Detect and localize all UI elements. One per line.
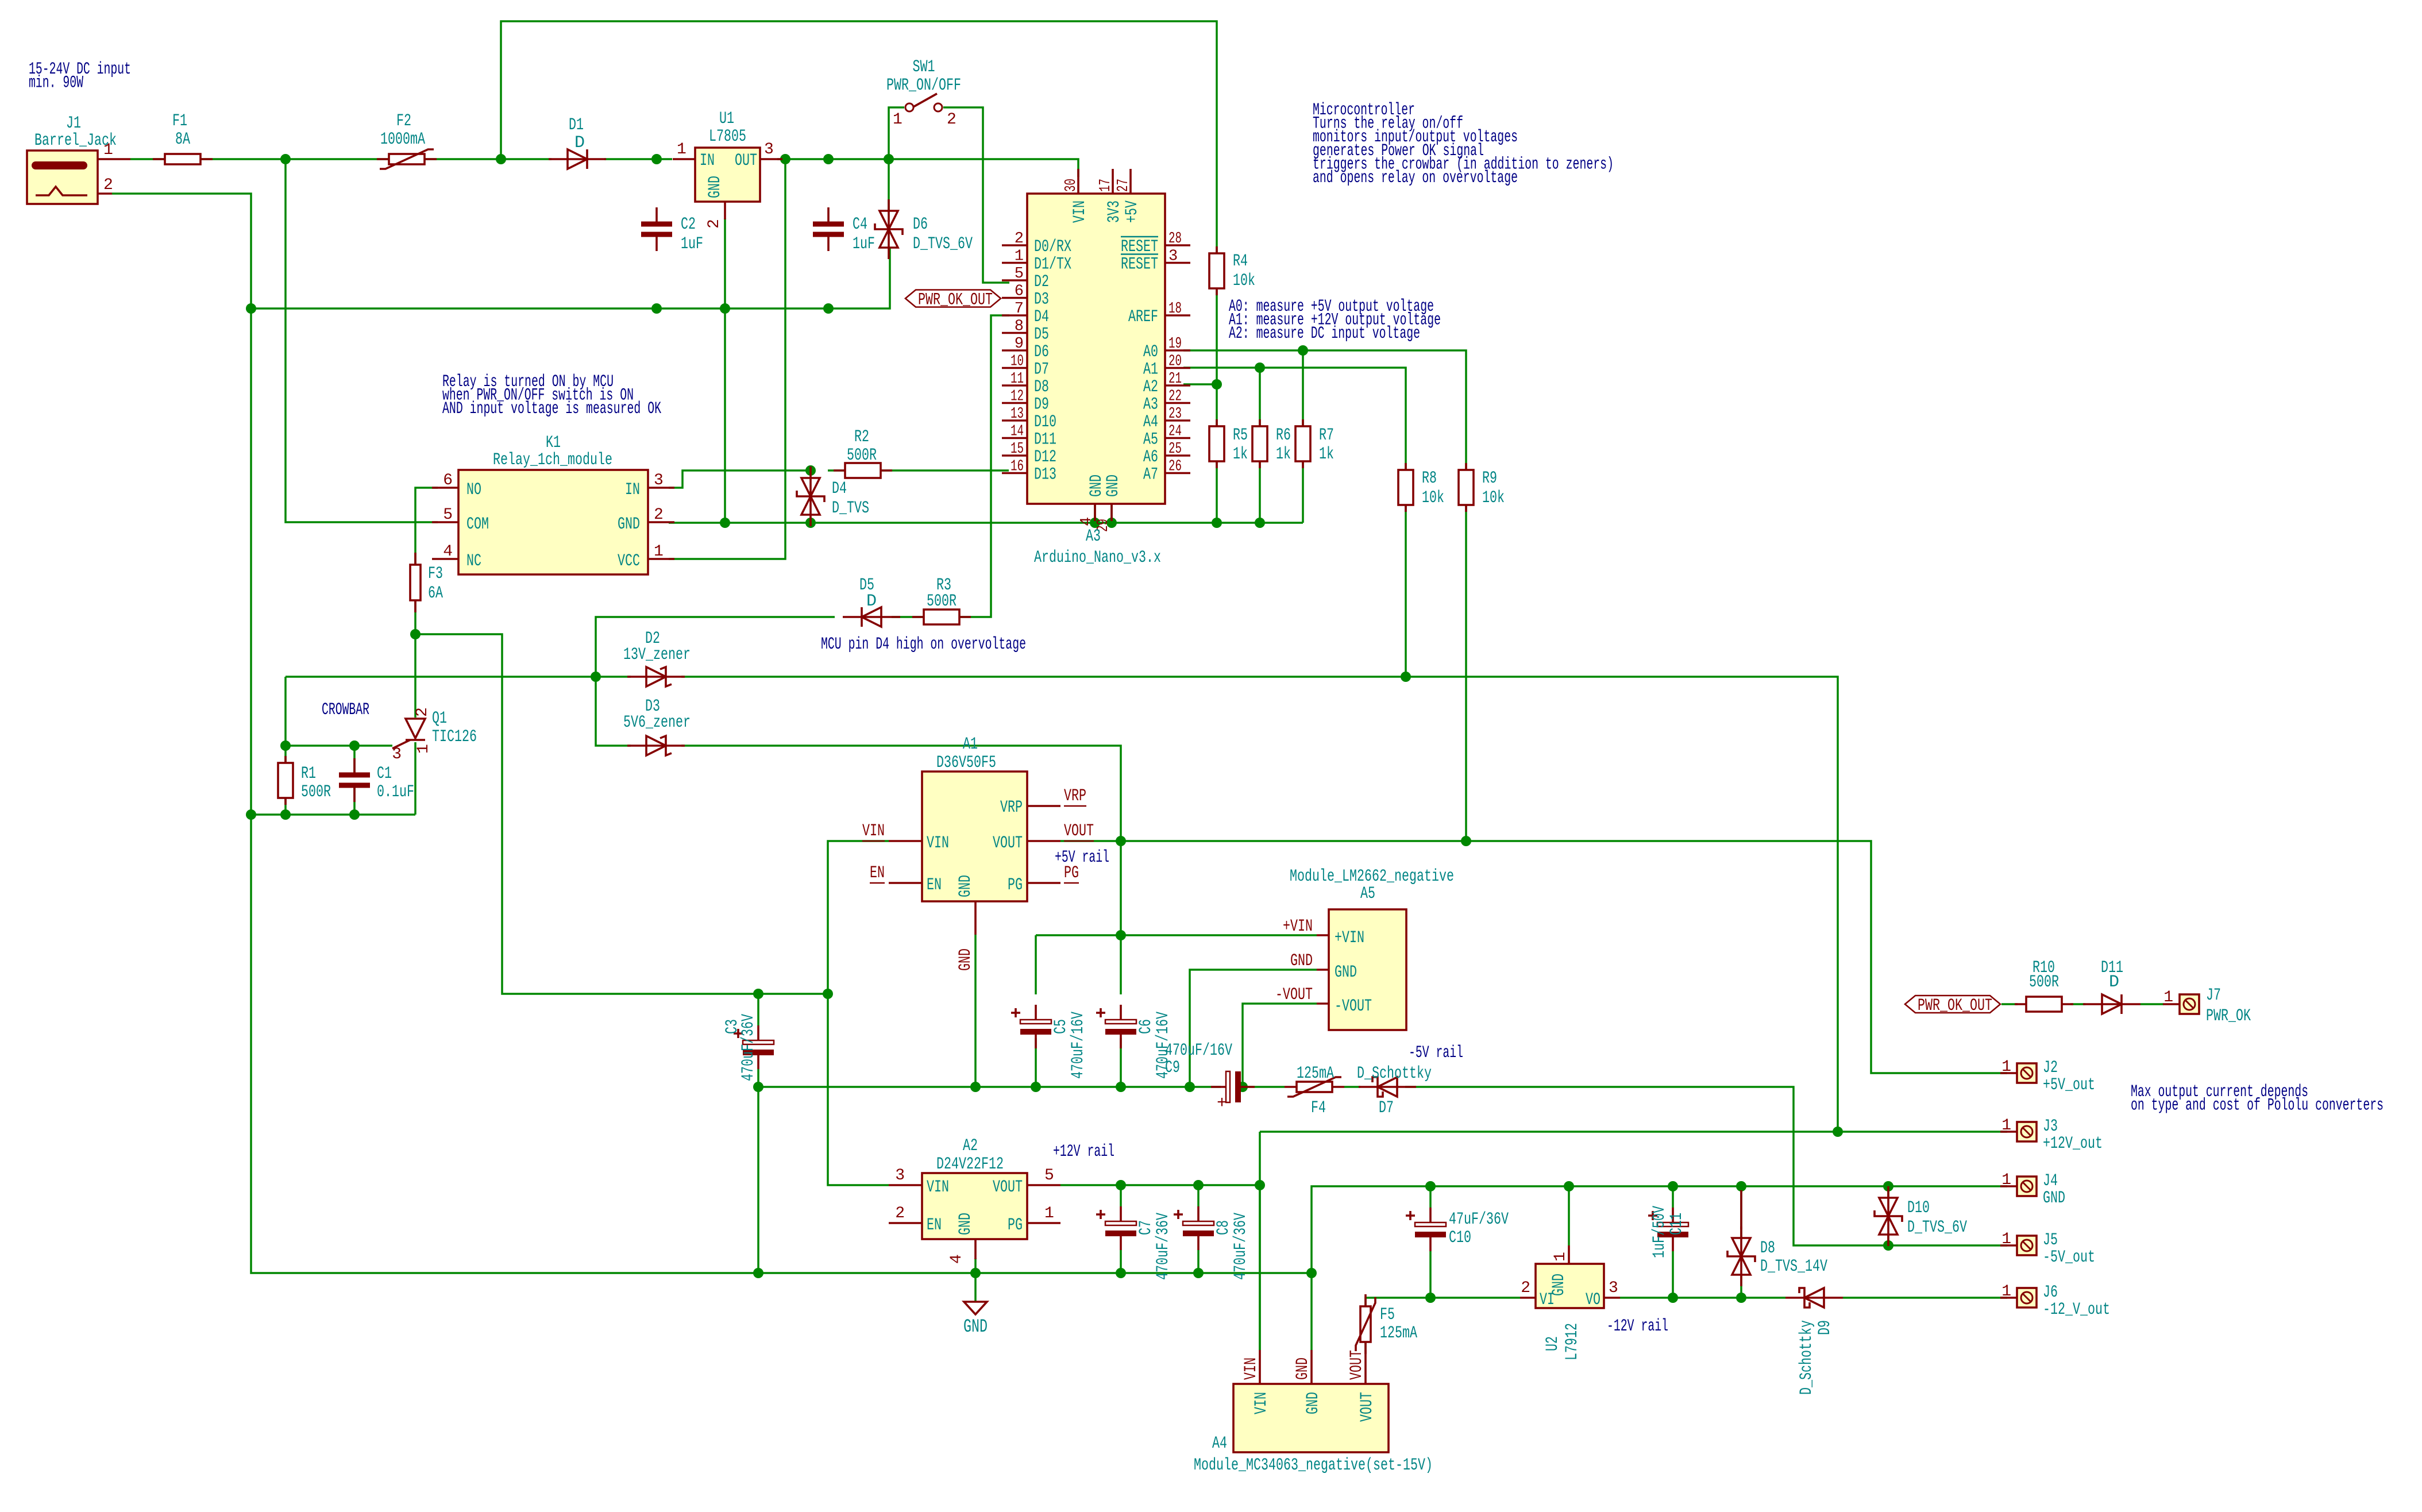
svg-text:10k: 10k bbox=[1233, 271, 1255, 291]
svg-text:J1: J1 bbox=[66, 114, 81, 133]
svg-text:VOUT: VOUT bbox=[993, 1178, 1023, 1197]
svg-text:Relay_1ch_module: Relay_1ch_module bbox=[493, 450, 612, 470]
wire C3 link down bbox=[757, 1087, 759, 1273]
zener diode D3 5V6 bbox=[627, 745, 685, 747]
svg-text:22: 22 bbox=[1168, 388, 1182, 406]
svg-text:18: 18 bbox=[1168, 300, 1182, 318]
connector J5 -5V_out bbox=[2017, 1236, 2037, 1255]
svg-text:1: 1 bbox=[2001, 1231, 2011, 1248]
svg-text:+VIN: +VIN bbox=[1283, 917, 1313, 936]
svg-text:C5: C5 bbox=[1051, 1019, 1071, 1034]
svg-text:D7: D7 bbox=[1379, 1098, 1394, 1118]
diode D11 bbox=[2083, 1003, 2141, 1005]
svg-text:D12: D12 bbox=[1034, 448, 1056, 467]
connector J2 +5V_out bbox=[2017, 1063, 2037, 1083]
svg-text:TIC126: TIC126 bbox=[432, 727, 477, 747]
svg-text:D3: D3 bbox=[1034, 290, 1049, 310]
svg-text:11: 11 bbox=[1011, 371, 1024, 388]
svg-text:A4: A4 bbox=[1143, 412, 1158, 432]
svg-text:7: 7 bbox=[1015, 300, 1024, 318]
junction V+ node below F3 bbox=[410, 629, 421, 639]
svg-text:-5V_out: -5V_out bbox=[2043, 1248, 2095, 1267]
svg-text:3V3: 3V3 bbox=[1105, 200, 1124, 223]
svg-text:D_TVS: D_TVS bbox=[832, 499, 869, 518]
svg-text:D: D bbox=[866, 592, 877, 611]
wire C10 bbox=[1429, 1186, 1432, 1208]
svg-text:500R: 500R bbox=[847, 446, 877, 465]
svg-text:D7: D7 bbox=[1034, 360, 1049, 380]
svg-text:1k: 1k bbox=[1233, 445, 1248, 464]
svg-text:J7: J7 bbox=[2206, 986, 2221, 1005]
capacitor C4 1uF bbox=[827, 207, 830, 223]
svg-text:F3: F3 bbox=[428, 564, 443, 584]
svg-text:2: 2 bbox=[654, 506, 664, 524]
svg-text:27: 27 bbox=[1115, 179, 1132, 192]
regulator U2 L7912 bbox=[1536, 1264, 1604, 1308]
svg-text:R2: R2 bbox=[854, 427, 869, 447]
svg-text:VIN: VIN bbox=[1070, 200, 1090, 223]
junction vin5/C6 bbox=[1116, 930, 1126, 940]
svg-text:-12V rail: -12V rail bbox=[1607, 1317, 1668, 1336]
svg-text:A5: A5 bbox=[1360, 884, 1375, 904]
svg-text:6: 6 bbox=[443, 472, 453, 489]
capacitor C2 1uF bbox=[655, 207, 658, 223]
svg-text:10k: 10k bbox=[1482, 488, 1505, 508]
junction J4/D10 bbox=[1883, 1181, 1893, 1191]
junction crowbar/C1 bbox=[349, 809, 360, 820]
svg-text:25: 25 bbox=[1168, 441, 1182, 458]
wire U2 gnd bbox=[1568, 1186, 1570, 1245]
diode D5 bbox=[843, 616, 900, 618]
svg-text:3: 3 bbox=[895, 1167, 905, 1185]
junction g1892/C3 bbox=[753, 1082, 763, 1092]
svg-text:2: 2 bbox=[103, 176, 113, 194]
regulator module A1 D36V50F5 bbox=[922, 772, 1027, 901]
svg-text:4: 4 bbox=[443, 543, 453, 561]
svg-text:GND: GND bbox=[1549, 1274, 1569, 1296]
svg-text:23: 23 bbox=[1168, 406, 1182, 423]
svg-text:D5: D5 bbox=[1034, 325, 1049, 345]
wire R7 bottom bbox=[1302, 461, 1304, 523]
connector J6 -12_V_out bbox=[2017, 1288, 2037, 1307]
wire R8 bottom bbox=[1405, 504, 1407, 677]
junction J6/C11 bbox=[1668, 1293, 1678, 1303]
wire C11 bbox=[1672, 1186, 1674, 1208]
junction main/SW1-D6 bbox=[884, 154, 894, 164]
svg-text:J6: J6 bbox=[2043, 1283, 2058, 1302]
junction 12V/C7 bbox=[1116, 1180, 1126, 1190]
converter module A4 Module_MC34063_negative bbox=[1233, 1384, 1389, 1452]
junction main/C2 bbox=[651, 154, 662, 164]
svg-text:C9: C9 bbox=[1165, 1058, 1180, 1078]
svg-text:1uF: 1uF bbox=[853, 234, 875, 254]
wire gate row bbox=[286, 745, 392, 747]
svg-text:R6: R6 bbox=[1276, 426, 1291, 445]
junction g1892/A1gnd bbox=[970, 1082, 981, 1092]
svg-text:Module_MC34063_negative(set-15: Module_MC34063_negative(set-15V) bbox=[1194, 1456, 1433, 1475]
wire R5 bottom bbox=[1216, 461, 1218, 523]
wire trunk up to A1 VIN bbox=[828, 841, 889, 994]
junction A2/R4R5 bbox=[1212, 379, 1222, 389]
svg-text:GND: GND bbox=[956, 948, 975, 971]
junction rail910/D4 bbox=[805, 518, 816, 528]
svg-text:EN: EN bbox=[927, 1216, 942, 1235]
wire D8 leads bbox=[1740, 1186, 1742, 1238]
svg-text:RESET: RESET bbox=[1121, 255, 1158, 275]
svg-text:GND: GND bbox=[1293, 1357, 1313, 1380]
wire C6 top bbox=[1120, 935, 1122, 994]
wire top loop to R4 bbox=[501, 21, 1217, 253]
schottky diode D7 bbox=[1359, 1086, 1416, 1088]
wire +5V down to +VIN line bbox=[1120, 841, 1122, 935]
svg-text:D_TVS_14V: D_TVS_14V bbox=[1760, 1257, 1827, 1276]
svg-text:1: 1 bbox=[2001, 1171, 2011, 1189]
svg-text:1: 1 bbox=[2163, 989, 2173, 1006]
microcontroller A3 Arduino_Nano_v3.x bbox=[1027, 194, 1165, 504]
svg-text:GND: GND bbox=[1290, 951, 1313, 971]
svg-text:D_TVS_6V: D_TVS_6V bbox=[913, 234, 973, 254]
svg-text:A1: A1 bbox=[963, 735, 978, 754]
junction rail910/U1gnd bbox=[720, 518, 730, 528]
capacitor C9 470uF/16V bbox=[1211, 1086, 1226, 1088]
junction J3/sense bbox=[1833, 1127, 1843, 1137]
junction g1892/C5 bbox=[1031, 1082, 1041, 1092]
capacitor C10 47uF/36V bbox=[1429, 1208, 1432, 1222]
svg-text:13V_zener: 13V_zener bbox=[623, 645, 691, 665]
schottky diode D9 bbox=[1785, 1297, 1843, 1299]
svg-text:24: 24 bbox=[1168, 423, 1182, 441]
svg-text:J4: J4 bbox=[2043, 1171, 2058, 1191]
svg-text:VO: VO bbox=[1586, 1290, 1600, 1310]
svg-text:VIN: VIN bbox=[1241, 1357, 1261, 1380]
svg-text:D36V50F5: D36V50F5 bbox=[936, 753, 996, 773]
svg-text:28: 28 bbox=[1168, 230, 1182, 248]
svg-text:13: 13 bbox=[1011, 406, 1024, 423]
ground symbol under A2 bbox=[964, 1302, 987, 1314]
wire MCU gnd stubs bbox=[1094, 504, 1096, 523]
svg-text:A6: A6 bbox=[1143, 448, 1158, 467]
svg-text:A2: measure DC input voltage: A2: measure DC input voltage bbox=[1229, 324, 1420, 344]
svg-text:GND: GND bbox=[956, 875, 975, 897]
svg-text:470uF/36V: 470uF/36V bbox=[739, 1014, 758, 1081]
wire V+ node to A1-VIN trunk bbox=[415, 634, 828, 994]
svg-text:VIN: VIN bbox=[862, 821, 885, 841]
regulator U1 L7805 bbox=[695, 148, 760, 202]
svg-text:R5: R5 bbox=[1233, 426, 1248, 445]
svg-text:C8: C8 bbox=[1214, 1220, 1233, 1235]
TVS diode D4 D_TVS bbox=[809, 466, 812, 526]
svg-text:D8: D8 bbox=[1034, 377, 1049, 397]
svg-text:VOUT: VOUT bbox=[993, 834, 1023, 853]
svg-text:AND input voltage is measured: AND input voltage is measured OK bbox=[442, 399, 661, 419]
svg-text:A4: A4 bbox=[1212, 1434, 1227, 1453]
svg-text:VOUT: VOUT bbox=[1347, 1350, 1367, 1380]
wire D10 leads bbox=[1887, 1186, 1889, 1198]
capacitor C5 470uF/16V bbox=[1035, 1005, 1037, 1020]
svg-text:D24V22F12: D24V22F12 bbox=[936, 1155, 1004, 1174]
svg-text:-VOUT: -VOUT bbox=[1335, 997, 1372, 1016]
svg-text:D4: D4 bbox=[832, 479, 847, 499]
svg-text:Barrel_Jack: Barrel_Jack bbox=[34, 131, 117, 151]
svg-text:2: 2 bbox=[947, 111, 957, 129]
svg-text:3: 3 bbox=[654, 472, 664, 489]
svg-text:470uF/16V: 470uF/16V bbox=[1069, 1012, 1088, 1079]
svg-text:1: 1 bbox=[893, 111, 903, 129]
wire A0 line bbox=[1183, 350, 1466, 470]
resistor R4 10k bbox=[1216, 246, 1218, 295]
capacitor C3 470uF/36V bbox=[757, 1025, 759, 1040]
svg-text:1: 1 bbox=[1044, 1205, 1054, 1222]
svg-text:+12V rail: +12V rail bbox=[1053, 1142, 1114, 1162]
wire COM feed bbox=[286, 159, 438, 522]
resistor R3 500R bbox=[912, 616, 971, 618]
svg-text:R1: R1 bbox=[301, 764, 316, 784]
wire R7 top bbox=[1302, 350, 1304, 426]
global label PWR_OK_OUT (MCU) bbox=[905, 290, 1001, 307]
svg-text:10: 10 bbox=[1011, 353, 1024, 371]
svg-text:6A: 6A bbox=[428, 584, 443, 603]
resistor R5 1k bbox=[1216, 419, 1218, 468]
svg-text:D4: D4 bbox=[1034, 307, 1049, 327]
wire GND rail y=537 bbox=[251, 248, 890, 308]
svg-text:D9: D9 bbox=[1034, 395, 1049, 415]
wire A4 VOUT-F5 bbox=[1364, 1342, 1367, 1350]
charge pump module A5 Module_LM2662_negative bbox=[1329, 909, 1406, 1030]
svg-text:GND: GND bbox=[956, 1213, 975, 1235]
wire zener gate line L1 bbox=[286, 676, 631, 678]
wire R9 bottom bbox=[1465, 504, 1467, 841]
svg-text:1: 1 bbox=[654, 543, 664, 561]
svg-text:1: 1 bbox=[2001, 1283, 2011, 1301]
svg-text:A2: A2 bbox=[1143, 377, 1158, 397]
junction g2216/C3link bbox=[753, 1268, 763, 1278]
svg-text:1: 1 bbox=[1015, 248, 1024, 265]
svg-text:D9: D9 bbox=[1815, 1320, 1835, 1335]
junction gate/R1 bbox=[280, 740, 291, 751]
junction J4/U2gnd bbox=[1564, 1181, 1574, 1191]
svg-text:GND: GND bbox=[705, 176, 725, 198]
svg-text:D1/TX: D1/TX bbox=[1034, 255, 1071, 275]
junction 5Vrail/D3 bbox=[1116, 836, 1126, 846]
wire R2 to D13 bbox=[828, 469, 845, 472]
junction -5V/-VOUT bbox=[1237, 1082, 1248, 1092]
svg-text:U1: U1 bbox=[719, 109, 734, 129]
svg-text:GND: GND bbox=[1104, 475, 1123, 497]
junction rail537/U1-GND bbox=[720, 303, 730, 314]
svg-text:D11: D11 bbox=[1034, 430, 1056, 450]
junction GND-trunk/crowbar bbox=[246, 809, 256, 820]
junction A1/R6 bbox=[1255, 362, 1265, 373]
svg-text:500R: 500R bbox=[301, 782, 331, 802]
junction g2216/A2gnd bbox=[970, 1268, 981, 1278]
svg-text:C4: C4 bbox=[853, 215, 867, 234]
svg-text:3: 3 bbox=[1609, 1279, 1618, 1297]
svg-text:1uF/50V: 1uF/50V bbox=[1650, 1206, 1669, 1258]
svg-text:1: 1 bbox=[677, 141, 687, 159]
wire +12V up-down trunk bbox=[1259, 1132, 1261, 1350]
thyristor Q1 TIC126 bbox=[406, 719, 425, 738]
svg-text:-VOUT: -VOUT bbox=[1275, 985, 1313, 1005]
svg-text:9: 9 bbox=[1015, 335, 1024, 353]
svg-text:470uF/36V: 470uF/36V bbox=[1231, 1213, 1251, 1280]
svg-text:8A: 8A bbox=[175, 130, 190, 149]
global label PWR_OK_OUT (output) bbox=[1905, 996, 2000, 1013]
wire main V+ input line y=277 bbox=[130, 158, 165, 160]
svg-text:COM: COM bbox=[466, 515, 489, 534]
TVS diode D8 D_TVS_14V bbox=[1740, 1190, 1742, 1229]
junction rail910/R5 bbox=[1212, 518, 1222, 528]
svg-text:125mA: 125mA bbox=[1380, 1324, 1417, 1343]
svg-text:4: 4 bbox=[1078, 517, 1096, 526]
svg-text:R8: R8 bbox=[1422, 469, 1437, 488]
wire Q1 cathode bbox=[414, 742, 416, 815]
wire U1-GND down bbox=[724, 218, 726, 523]
wire A2 line bbox=[1183, 383, 1217, 385]
svg-text:PWR_OK_OUT: PWR_OK_OUT bbox=[1918, 996, 1992, 1016]
junction g2216/A4gnd bbox=[1306, 1268, 1317, 1278]
svg-text:C1: C1 bbox=[377, 764, 392, 784]
svg-text:0.1uF: 0.1uF bbox=[377, 782, 414, 802]
svg-text:VIN: VIN bbox=[927, 834, 949, 853]
junction rail537/C2 bbox=[651, 303, 662, 314]
svg-text:NC: NC bbox=[466, 551, 481, 571]
capacitor C11 1uF/50V bbox=[1672, 1208, 1674, 1222]
svg-text:6: 6 bbox=[1015, 283, 1024, 300]
svg-text:D8: D8 bbox=[1760, 1239, 1775, 1258]
capacitor C7 470uF/36V bbox=[1120, 1206, 1122, 1221]
svg-text:VIN: VIN bbox=[927, 1178, 949, 1197]
svg-text:J2: J2 bbox=[2043, 1058, 2058, 1078]
wire R1 leads bbox=[284, 746, 287, 763]
svg-text:1: 1 bbox=[2001, 1058, 2011, 1076]
wire VCC feed bbox=[669, 159, 785, 559]
junction J4/C11 bbox=[1668, 1181, 1678, 1191]
svg-text:5V6_zener: 5V6_zener bbox=[623, 713, 691, 732]
svg-text:1000mA: 1000mA bbox=[380, 130, 425, 149]
svg-text:PWR_ON/OFF: PWR_ON/OFF bbox=[886, 76, 961, 95]
junction g2216/C8 bbox=[1193, 1268, 1204, 1278]
svg-text:5: 5 bbox=[1044, 1167, 1054, 1185]
svg-text:R9: R9 bbox=[1482, 469, 1497, 488]
wire R6 top bbox=[1259, 368, 1261, 426]
junction 12V/corner bbox=[1255, 1180, 1265, 1190]
svg-text:C10: C10 bbox=[1449, 1228, 1471, 1248]
wire F3 to V+ node bbox=[414, 600, 416, 634]
fuse F5 125mA bbox=[1364, 1294, 1367, 1354]
svg-text:D10: D10 bbox=[1034, 412, 1056, 432]
svg-text:J5: J5 bbox=[2043, 1231, 2058, 1250]
junction IN-line/D4tvs bbox=[805, 465, 816, 476]
wire +5V rail bbox=[1060, 841, 2007, 1073]
junction rail910/MCU-gnd4 bbox=[1090, 518, 1100, 528]
svg-text:C2: C2 bbox=[681, 215, 696, 234]
wire A2 VIN bbox=[828, 994, 889, 1185]
svg-text:D_TVS_6V: D_TVS_6V bbox=[1907, 1218, 1967, 1237]
svg-text:Module_LM2662_negative: Module_LM2662_negative bbox=[1290, 867, 1454, 886]
svg-text:C7: C7 bbox=[1136, 1220, 1156, 1235]
svg-text:PG: PG bbox=[1008, 1216, 1023, 1235]
zener diode D2 13V bbox=[627, 676, 685, 678]
wire GND rail y=910 bbox=[669, 522, 1303, 524]
wire D6 top bbox=[888, 159, 890, 210]
svg-text:VRP: VRP bbox=[1064, 786, 1086, 806]
wire A1 line bbox=[1183, 368, 1406, 470]
svg-text:5: 5 bbox=[443, 506, 453, 524]
svg-text:+12V_out: +12V_out bbox=[2043, 1134, 2103, 1154]
svg-text:+5V_out: +5V_out bbox=[2043, 1075, 2095, 1095]
svg-text:500R: 500R bbox=[2029, 973, 2059, 992]
svg-text:26: 26 bbox=[1168, 458, 1182, 476]
wire PWR_OK net bbox=[2001, 1003, 2018, 1005]
junction main/top-loop bbox=[496, 154, 506, 164]
svg-text:R7: R7 bbox=[1319, 426, 1334, 445]
wire J6 line after U2 bbox=[1620, 1297, 1785, 1299]
wire C6 bottom bbox=[1120, 1038, 1122, 1087]
svg-text:VCC: VCC bbox=[618, 551, 640, 571]
junction rail910/MCU-gnd29 bbox=[1106, 518, 1117, 528]
junction trigger/D2-line bbox=[591, 672, 601, 682]
svg-text:EN: EN bbox=[870, 863, 885, 883]
svg-text:2: 2 bbox=[705, 219, 723, 229]
wire D4-D5-R3 trigger line bbox=[960, 315, 1009, 617]
junction A0/R7 bbox=[1298, 345, 1308, 356]
svg-text:20: 20 bbox=[1168, 353, 1182, 371]
wire A5 -VOUT bbox=[1243, 1004, 1317, 1087]
svg-text:D6: D6 bbox=[1034, 342, 1049, 362]
wire SW1 pin2 to D2pin bbox=[943, 107, 1009, 283]
wire C7 leads bbox=[1120, 1185, 1122, 1206]
svg-text:min. 90W: min. 90W bbox=[29, 74, 83, 93]
junction J4/C10 bbox=[1425, 1181, 1436, 1191]
svg-text:2: 2 bbox=[895, 1205, 905, 1222]
svg-text:C11: C11 bbox=[1667, 1213, 1687, 1235]
svg-text:21: 21 bbox=[1168, 371, 1182, 388]
svg-text:47uF/36V: 47uF/36V bbox=[1449, 1210, 1509, 1229]
resistor R2 500R bbox=[834, 469, 892, 472]
svg-text:15: 15 bbox=[1011, 441, 1024, 458]
junction GND-trunk/rail537 bbox=[246, 303, 256, 314]
svg-text:VIN: VIN bbox=[1252, 1392, 1271, 1414]
junction main/VCC-feed bbox=[780, 154, 790, 164]
svg-text:D2: D2 bbox=[1034, 272, 1049, 292]
svg-text:+5V: +5V bbox=[1123, 200, 1142, 223]
wire C8 leads bbox=[1197, 1185, 1200, 1206]
wire D3 output line +5V sense bbox=[681, 746, 1121, 841]
junction -5V/D10 bbox=[1883, 1240, 1893, 1251]
svg-text:4: 4 bbox=[948, 1254, 966, 1264]
svg-text:CROWBAR: CROWBAR bbox=[322, 700, 369, 720]
svg-text:D: D bbox=[2109, 973, 2119, 992]
svg-text:1k: 1k bbox=[1319, 445, 1334, 464]
svg-text:R4: R4 bbox=[1233, 252, 1248, 271]
svg-text:PWR_OK_OUT: PWR_OK_OUT bbox=[918, 291, 993, 310]
svg-text:500R: 500R bbox=[927, 592, 957, 611]
svg-text:VRP: VRP bbox=[1000, 798, 1023, 817]
svg-text:Q1: Q1 bbox=[432, 709, 447, 728]
junction rail910/R6 bbox=[1255, 518, 1265, 528]
fuse F4 125mA bbox=[1285, 1086, 1344, 1088]
connector J7 PWR_OK bbox=[2180, 994, 2199, 1014]
wire A4 VIN up bbox=[1259, 1185, 1261, 1350]
svg-text:L7805: L7805 bbox=[709, 127, 746, 146]
svg-text:C6: C6 bbox=[1136, 1019, 1156, 1034]
svg-text:2: 2 bbox=[1521, 1279, 1530, 1297]
svg-text:1uF: 1uF bbox=[681, 234, 703, 254]
TVS diode D6 D_TVS_6V bbox=[888, 199, 890, 259]
svg-text:+VIN: +VIN bbox=[1335, 928, 1364, 948]
junction g1892/C6 bbox=[1116, 1082, 1126, 1092]
resistor R6 1k bbox=[1259, 419, 1261, 468]
